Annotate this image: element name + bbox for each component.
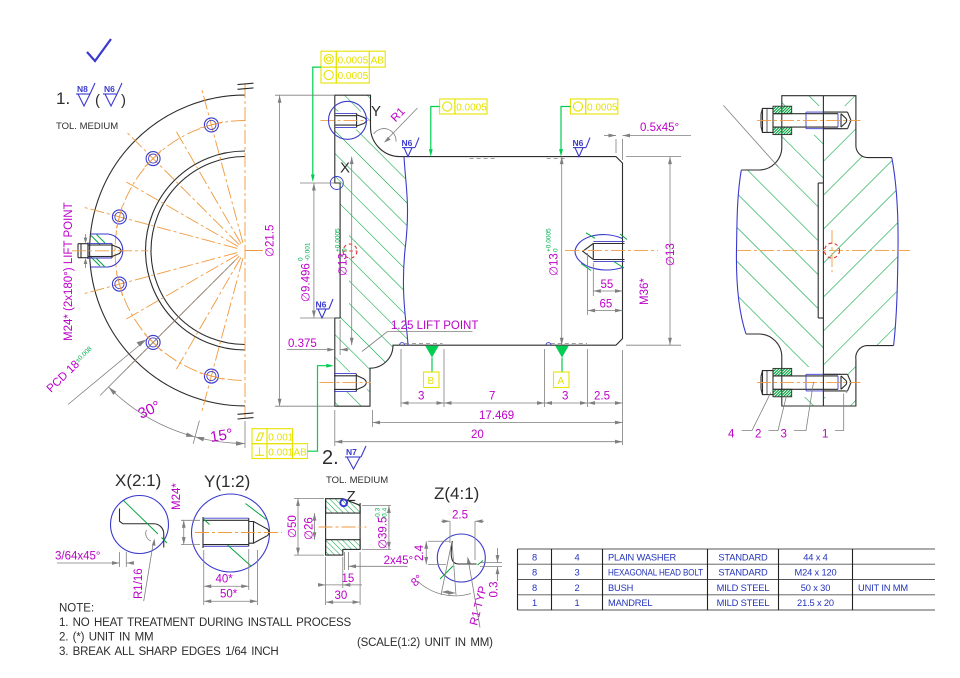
svg-text:+0.0005: +0.0005 xyxy=(335,228,342,252)
svg-text:(: ( xyxy=(95,92,100,109)
svg-text:∅26: ∅26 xyxy=(304,517,316,540)
svg-text:3: 3 xyxy=(562,391,568,403)
bottom set bolt in flange xyxy=(334,374,366,392)
svg-text:N8: N8 xyxy=(77,84,88,94)
balloon leader 1 xyxy=(835,394,844,431)
M24 small dimension xyxy=(85,234,87,241)
svg-text:3. BREAK ALL SHARP EDGES 1/64: 3. BREAK ALL SHARP EDGES 1/64 INCH xyxy=(59,646,279,658)
svg-text:Y: Y xyxy=(371,103,381,120)
svg-text:A: A xyxy=(558,376,565,387)
svg-text:20: 20 xyxy=(471,429,484,441)
svg-text:STANDARD: STANDARD xyxy=(718,552,768,562)
N6 symbol on cylinder top (left) xyxy=(402,138,420,157)
centerline break ticks bottom xyxy=(238,413,254,414)
flange inner bore arc (inner of double) xyxy=(151,157,245,345)
R1 fillet radius annotation arc xyxy=(374,129,396,142)
svg-text:1: 1 xyxy=(574,598,579,608)
svg-text:2.5: 2.5 xyxy=(452,510,468,522)
joint face and recess of left mandrel xyxy=(822,96,824,406)
svg-text:8: 8 xyxy=(532,552,537,562)
svg-text:∅13: ∅13 xyxy=(338,253,350,276)
svg-text:R1/16: R1/16 xyxy=(133,568,145,599)
svg-text:1. NO HEAT TREATMENT DURING IN: 1. NO HEAT TREATMENT DURING INSTALL PROC… xyxy=(59,617,352,629)
white mask over top bolt zone xyxy=(782,106,848,135)
svg-text:STANDARD: STANDARD xyxy=(718,568,768,578)
svg-text:50*: 50* xyxy=(220,589,238,601)
M36 bolt centerline xyxy=(565,250,658,252)
svg-text:X: X xyxy=(340,160,350,177)
GDT frame circularity 0.0005 (mid-left) xyxy=(440,99,487,114)
extension line at 270 deg xyxy=(244,421,246,448)
bush bottom hatched band xyxy=(326,540,361,555)
break (wavy) line bounding local section xyxy=(403,157,408,346)
svg-text:N6: N6 xyxy=(573,138,584,148)
right mandrel outline xyxy=(823,96,891,158)
flange outer arc xyxy=(90,95,245,406)
dim D50 xyxy=(294,497,324,499)
bolt circle centerline arc xyxy=(115,121,245,381)
svg-text:0.0005: 0.0005 xyxy=(456,102,487,113)
detail X circle xyxy=(111,496,169,554)
bottom bolt centerline xyxy=(320,382,371,384)
N6 symbol at bore xyxy=(316,299,334,318)
green leader from top frames to bore face xyxy=(313,67,321,177)
svg-text:N6: N6 xyxy=(316,300,327,310)
bush left face xyxy=(325,498,327,555)
svg-text:∅13: ∅13 xyxy=(549,253,561,276)
svg-text:MILD STEEL: MILD STEEL xyxy=(717,583,770,593)
short vertical centerline at joint xyxy=(831,230,833,272)
balloon leader 4 xyxy=(742,393,771,431)
svg-text:-0.3: -0.3 xyxy=(375,507,382,519)
white mask over dim text zone inside hatch xyxy=(336,222,349,304)
mandrel outline (section) xyxy=(335,95,623,406)
svg-text:BUSH: BUSH xyxy=(608,583,633,593)
bush centerline xyxy=(319,526,367,528)
svg-text:Y(1:2): Y(1:2) xyxy=(204,472,250,491)
svg-text:21.5 x 20: 21.5 x 20 xyxy=(797,598,834,608)
svg-text:TOL. MEDIUM: TOL. MEDIUM xyxy=(56,121,118,132)
detail X circle xyxy=(330,177,343,190)
svg-text:AB: AB xyxy=(294,448,308,459)
bolt holes on PCD xyxy=(200,118,223,132)
dim 20 xyxy=(334,410,336,446)
svg-text:-0.001: -0.001 xyxy=(305,242,312,261)
30 degree dimension arc xyxy=(109,387,196,437)
dim 55 xyxy=(592,263,594,296)
extension line at 255 deg xyxy=(193,421,199,444)
svg-text:4: 4 xyxy=(574,552,579,562)
short horizontal centerline dash right of center xyxy=(245,250,263,252)
GDT frame concentricity 0.0005 AB + circularity 0.0005 (top) xyxy=(321,51,385,83)
bush right face xyxy=(359,503,361,549)
right mandrel hatched section xyxy=(823,96,898,406)
svg-text:2.: 2. xyxy=(322,447,339,469)
dim D9.496 0/-0.001 xyxy=(300,182,334,184)
svg-text:NOTE:: NOTE: xyxy=(59,603,94,615)
svg-text:M24 x 120: M24 x 120 xyxy=(794,568,836,578)
svg-text:15: 15 xyxy=(342,573,355,585)
svg-text:∅21.5: ∅21.5 xyxy=(265,225,277,257)
main horizontal centerline xyxy=(737,250,910,252)
svg-text:M24* (2x180°) LIFT POINT: M24* (2x180°) LIFT POINT xyxy=(63,202,75,341)
detail Y circle xyxy=(192,494,270,572)
bottom bolt assembly xyxy=(761,368,851,396)
flange inner bore arc (outer of double) xyxy=(146,151,246,350)
svg-text:65: 65 xyxy=(600,299,613,311)
svg-text:44 x 4: 44 x 4 xyxy=(803,552,827,562)
balloon leader 2 xyxy=(769,396,787,431)
svg-text:): ) xyxy=(121,92,126,109)
dim 65 xyxy=(587,253,589,315)
svg-text:MANDREL: MANDREL xyxy=(608,598,652,608)
svg-text:1: 1 xyxy=(532,598,537,608)
datum flag A xyxy=(555,346,569,358)
svg-text:∅39.5: ∅39.5 xyxy=(378,517,390,549)
svg-text:4: 4 xyxy=(728,429,735,441)
svg-text:1.: 1. xyxy=(56,89,70,108)
svg-text:55: 55 xyxy=(601,279,614,291)
svg-text:50 x 30: 50 x 30 xyxy=(801,583,830,593)
svg-text:+0.0005: +0.0005 xyxy=(546,228,553,252)
green hatch ticks around bolt xyxy=(91,236,100,245)
svg-text:M36*: M36* xyxy=(639,278,651,305)
datum flag B xyxy=(425,346,439,358)
hatched cross-section of mandrel flange xyxy=(335,95,408,406)
GDT frame circularity 0.0005 (mid-right) xyxy=(570,99,617,114)
svg-text:2: 2 xyxy=(574,583,579,593)
svg-text:0.0005: 0.0005 xyxy=(338,55,369,66)
detail Y hatch lines xyxy=(246,504,267,520)
svg-text:∅13: ∅13 xyxy=(665,243,677,266)
svg-text:X(2:1): X(2:1) xyxy=(115,471,161,490)
centerline break ticks top xyxy=(238,83,254,84)
svg-text:B: B xyxy=(428,376,435,387)
top bolt centerline xyxy=(321,119,369,121)
leader (top-left diagonal) xyxy=(723,105,778,167)
svg-text:N7: N7 xyxy=(346,447,357,457)
red datum target circle xyxy=(343,244,357,258)
15 degree dimension arc xyxy=(195,437,245,444)
N6 symbol on cylinder top (right) xyxy=(573,138,591,157)
detail Y bolt xyxy=(203,517,269,548)
dim 17.469 xyxy=(372,410,374,427)
svg-text:∅9.496: ∅9.496 xyxy=(301,263,313,302)
svg-text:0: 0 xyxy=(298,257,305,261)
detail Y centerline xyxy=(195,532,282,534)
svg-text:HEXAGONAL HEAD BOLT: HEXAGONAL HEAD BOLT xyxy=(608,568,703,578)
svg-text:2.5: 2.5 xyxy=(594,391,610,403)
right break line (blue wavy) xyxy=(892,158,898,346)
detail X corner profile xyxy=(120,509,164,548)
svg-text:N6: N6 xyxy=(402,138,413,148)
svg-text:8: 8 xyxy=(532,568,537,578)
svg-text:1: 1 xyxy=(822,429,828,441)
svg-text:(SCALE(1:2) UNIT IN MM): (SCALE(1:2) UNIT IN MM) xyxy=(357,637,493,649)
svg-text:3: 3 xyxy=(781,429,787,441)
svg-text:40*: 40* xyxy=(216,574,234,586)
parts table xyxy=(518,549,936,610)
svg-text:0.3: 0.3 xyxy=(489,582,501,598)
dim D13 (right end) xyxy=(626,156,681,158)
svg-text:0: 0 xyxy=(553,248,560,252)
top set bolt in flange xyxy=(335,113,366,127)
red datum circle xyxy=(825,243,840,258)
svg-text:7: 7 xyxy=(489,391,495,403)
blue checkmark xyxy=(87,39,111,61)
svg-text:∅50: ∅50 xyxy=(287,515,299,538)
svg-text:0.0005: 0.0005 xyxy=(587,102,618,113)
svg-text:0.5x45°: 0.5x45° xyxy=(640,122,679,134)
hidden groove dashes on bottom edge xyxy=(405,343,443,345)
bush top hatched band xyxy=(326,499,361,513)
svg-text:0.0005: 0.0005 xyxy=(338,71,369,82)
R1 leader xyxy=(386,108,418,141)
R1/16 leader xyxy=(144,542,154,602)
svg-text:TOL. MEDIUM: TOL. MEDIUM xyxy=(326,475,388,486)
extension line at 225 deg xyxy=(100,261,234,395)
groove notch marks (blue) xyxy=(400,343,405,346)
svg-text:M24*: M24* xyxy=(171,483,183,510)
dim 0.5x45 chamfer xyxy=(615,139,617,153)
svg-text:17.469: 17.469 xyxy=(479,410,514,422)
left mandrel outline xyxy=(741,96,823,170)
detail Z circle xyxy=(437,534,485,582)
green leader mid-left to cylinder top xyxy=(431,107,440,153)
svg-text:3: 3 xyxy=(574,568,579,578)
chain dims 3 / 7 / 3 / 2.5 xyxy=(400,349,402,407)
svg-text:-0.4: -0.4 xyxy=(382,507,389,519)
dim D13 +0.0005/0 (mid cylinder) xyxy=(561,157,563,346)
white mask over bottom bolt zone xyxy=(782,367,848,397)
M24 bolt in hole (left view) xyxy=(78,243,122,260)
svg-text:15°: 15° xyxy=(209,426,234,446)
svg-text:AB: AB xyxy=(371,55,385,66)
detail Z marker circle xyxy=(340,499,347,506)
white mask over bottom bolt area xyxy=(335,372,367,392)
svg-text:0.375: 0.375 xyxy=(288,338,317,350)
top bolt assembly xyxy=(761,106,851,134)
GDT frame flatness 0.001 / perpendicularity 0.001 AB (bottom left) xyxy=(252,429,308,459)
svg-text:1.25 LIFT POINT: 1.25 LIFT POINT xyxy=(391,320,478,332)
radial centerlines xyxy=(202,88,243,243)
dim D21.5 xyxy=(275,94,334,96)
detail Z groove profile xyxy=(451,541,476,564)
white mask over top bolt area xyxy=(335,112,367,130)
dim D26 xyxy=(314,513,316,540)
svg-text:0.001: 0.001 xyxy=(268,448,293,459)
svg-text:3/64x45°: 3/64x45° xyxy=(55,551,101,563)
left break line (blue wavy) xyxy=(736,170,746,334)
M36 tapped hole with bolt (right) xyxy=(575,233,627,271)
svg-text:2x45°: 2x45° xyxy=(384,555,414,567)
svg-text:30: 30 xyxy=(335,590,348,602)
detail Z hatch xyxy=(440,566,453,579)
svg-text:0.001: 0.001 xyxy=(268,433,293,444)
svg-text:2. (*) UNIT IN MM: 2. (*) UNIT IN MM xyxy=(59,632,153,644)
balloon leader 3 xyxy=(794,382,814,431)
detail X hatch line xyxy=(124,501,159,535)
svg-text:N6: N6 xyxy=(104,84,115,94)
dim D39.5 -0.3/-0.4 xyxy=(362,505,391,507)
left mandrel hatched section xyxy=(736,96,823,406)
svg-text:MILD STEEL: MILD STEEL xyxy=(717,598,770,608)
svg-text:8: 8 xyxy=(532,583,537,593)
svg-text:Z: Z xyxy=(347,488,356,505)
green leader mid-right to cylinder top xyxy=(561,107,570,153)
vertical centerline of flange view xyxy=(244,84,246,418)
svg-text:0: 0 xyxy=(342,248,349,252)
svg-text:2.4: 2.4 xyxy=(414,544,426,561)
bolt centerline xyxy=(72,250,148,252)
green leader bottom frame to flange face xyxy=(308,366,330,452)
dim D13 +0.0005/0 (at flange) xyxy=(351,157,353,346)
R1 TYP leader xyxy=(468,561,480,628)
detail Y circle xyxy=(329,101,367,139)
svg-text:UNIT IN MM: UNIT IN MM xyxy=(858,583,908,593)
PCD leader line xyxy=(68,342,144,405)
svg-text:Z(4:1): Z(4:1) xyxy=(434,484,479,503)
local section boundary around bolt hole (blue U) xyxy=(90,234,123,267)
hidden groove dashes on top edge xyxy=(470,157,497,159)
svg-text:PLAIN WASHER: PLAIN WASHER xyxy=(608,552,677,562)
svg-text:2: 2 xyxy=(755,429,761,441)
dim 0.375 xyxy=(339,320,341,355)
svg-text:3: 3 xyxy=(418,391,424,403)
